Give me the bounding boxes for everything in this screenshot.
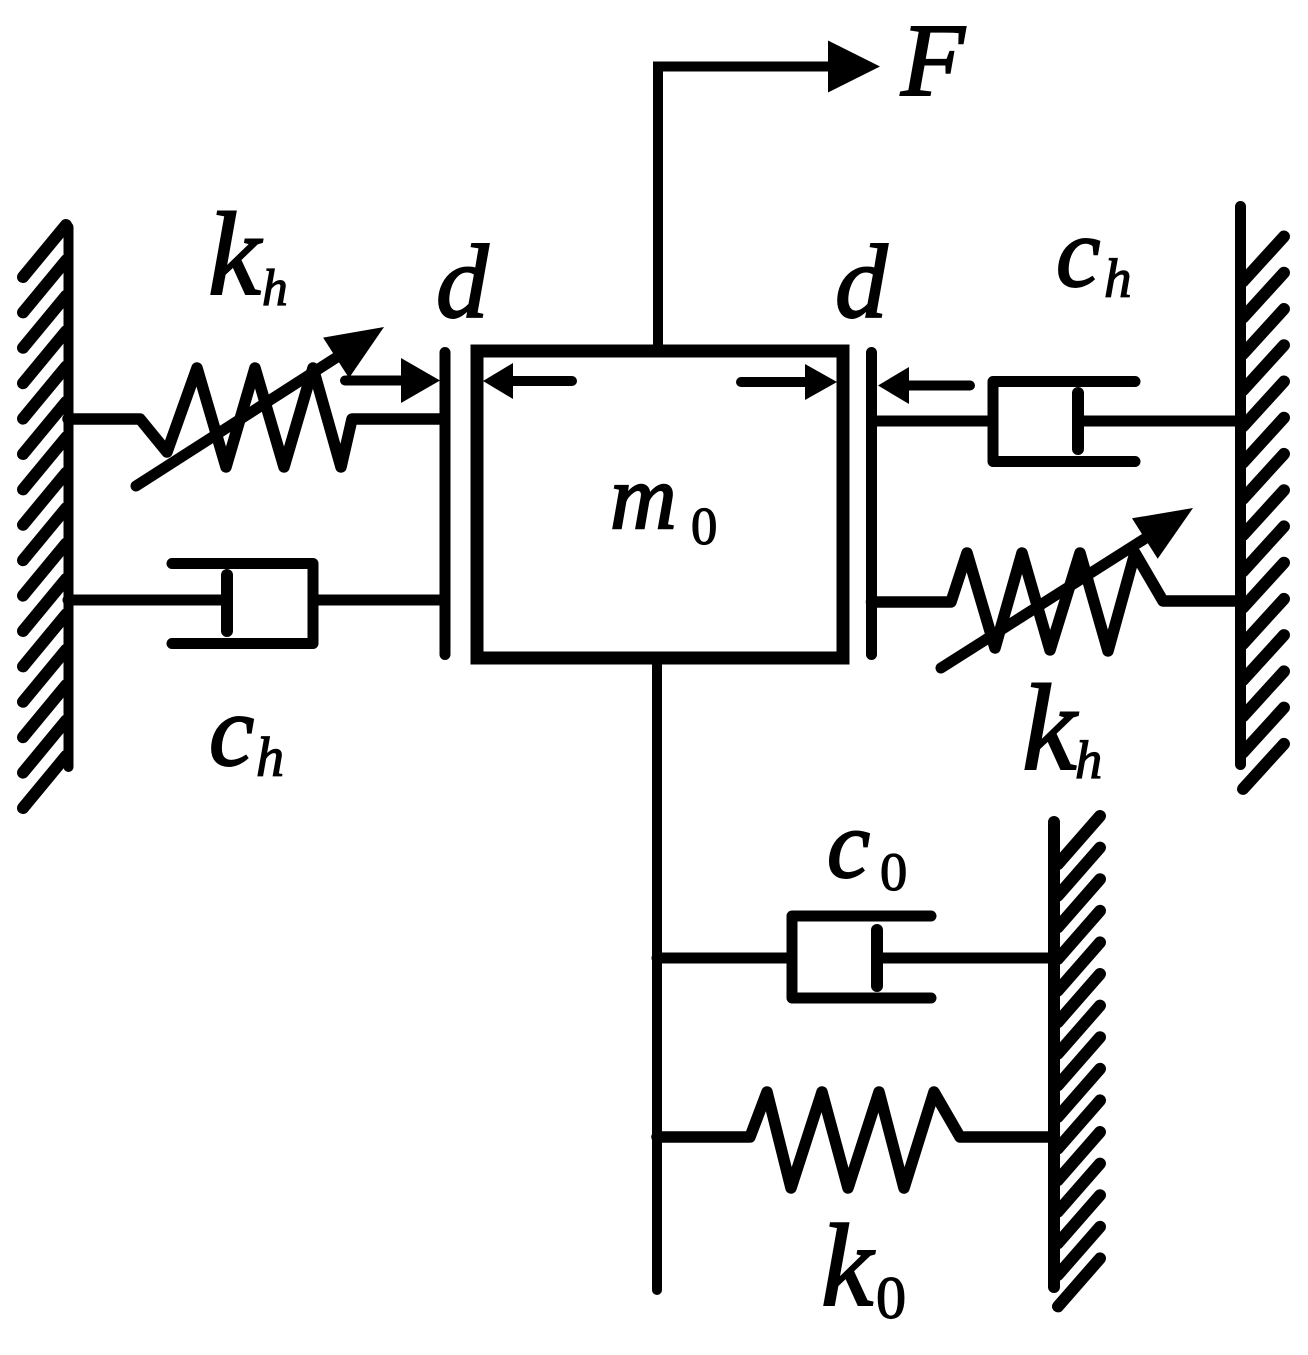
- spring kh left: [68, 368, 440, 467]
- damper c0: rod from center wire: [657, 953, 792, 964]
- svg-text:h: h: [256, 727, 284, 789]
- spring k0: [657, 1092, 1054, 1188]
- damper ch right: rod to wall: [1078, 416, 1240, 427]
- right contact plate: [866, 353, 877, 655]
- svg-text:0: 0: [880, 841, 907, 902]
- svg-text:k: k: [208, 188, 263, 320]
- dimension arrow head inner right: [805, 364, 837, 400]
- svg-text:k: k: [1022, 660, 1079, 796]
- svg-text:c: c: [209, 674, 254, 787]
- damper c0: cylinder: [792, 916, 931, 998]
- dimension arrow head outer left: [401, 358, 440, 403]
- svg-text:m: m: [610, 446, 677, 548]
- mass m0 box: [477, 351, 843, 658]
- svg-text:c: c: [827, 791, 870, 898]
- arrow head right spring: [1132, 508, 1193, 559]
- dimension arrow head inner left: [483, 363, 513, 399]
- variable arrow through right spring: [941, 539, 1145, 668]
- right wall: [1235, 207, 1246, 765]
- damper ch left: cylinder: [172, 564, 313, 644]
- svg-text:d: d: [835, 223, 888, 340]
- bottom wall hatching: [1058, 816, 1100, 1306]
- variable arrow through left spring: [136, 358, 336, 486]
- dimension arrow outer right shaft: [909, 381, 970, 391]
- dimension arrow inner right shaft: [741, 377, 805, 387]
- svg-text:0: 0: [876, 1265, 906, 1332]
- damper ch right: piston: [1072, 393, 1084, 449]
- arrow head left spring: [323, 327, 384, 378]
- svg-text:h: h: [262, 260, 288, 317]
- svg-text:0: 0: [691, 498, 717, 556]
- svg-text:c: c: [1056, 197, 1100, 308]
- damper ch left: rod to plate: [313, 595, 445, 606]
- right wall hatching: [1243, 237, 1284, 789]
- spring kh right: [872, 553, 1241, 651]
- svg-text:h: h: [1104, 248, 1132, 309]
- damper ch right: rod from plate: [872, 416, 994, 427]
- damper c0: piston: [871, 930, 883, 986]
- damper c0: rod to wall: [877, 953, 1054, 964]
- force arrow head F: [828, 41, 880, 93]
- dimension arrow inner left shaft: [513, 376, 572, 386]
- wire from mass bottom: [652, 658, 662, 1290]
- left wall hatching: [23, 225, 66, 808]
- damper ch right: cylinder: [993, 382, 1135, 462]
- svg-text:F: F: [900, 2, 966, 118]
- damper ch left: piston: [221, 575, 233, 631]
- left contact plate: [440, 353, 451, 655]
- dimension arrow head outer right: [878, 367, 909, 404]
- svg-text:h: h: [1075, 729, 1102, 790]
- svg-text:d: d: [436, 223, 489, 340]
- dimension arrow outer left shaft: [345, 376, 401, 386]
- wire from mass top to force arrow: [658, 67, 830, 346]
- left wall: [64, 227, 74, 767]
- svg-text:k: k: [821, 1201, 875, 1331]
- bottom right wall: [1048, 822, 1060, 1287]
- damper ch left: piston rod from wall: [68, 595, 227, 606]
